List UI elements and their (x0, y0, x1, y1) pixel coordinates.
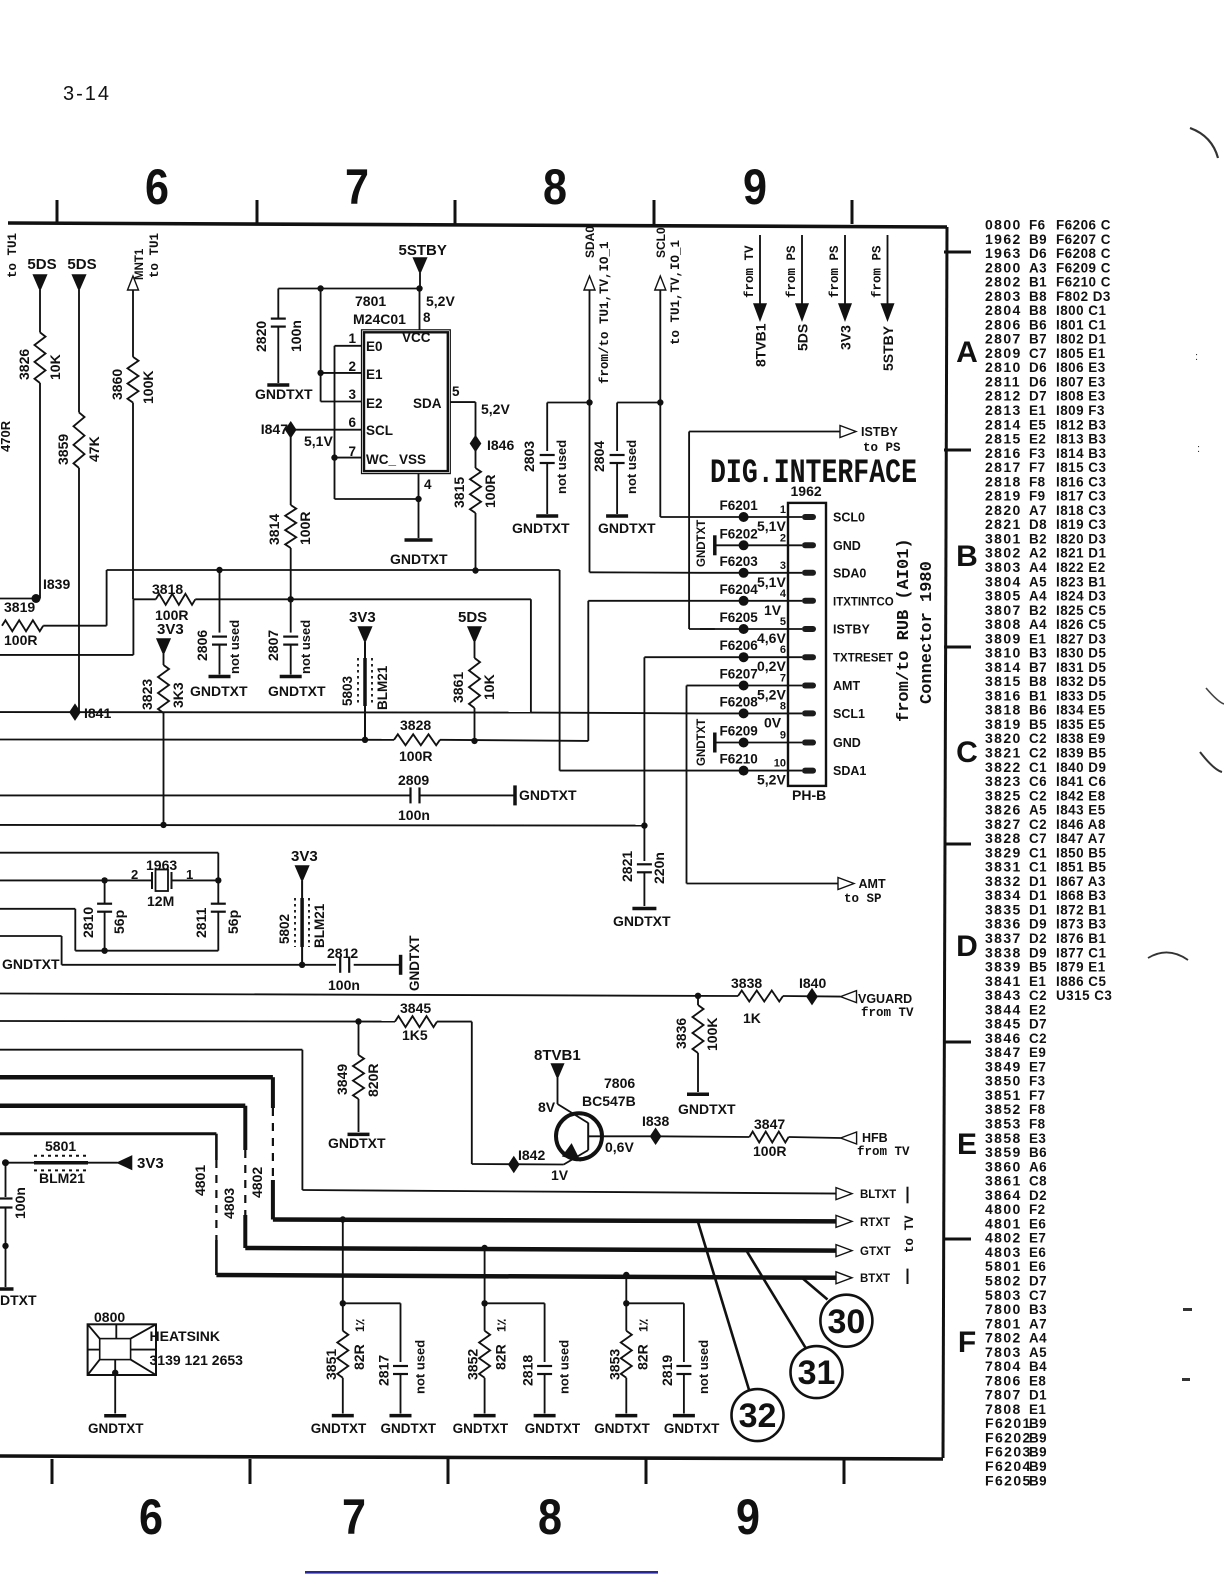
svg-text:I839 B5: I839 B5 (1056, 745, 1106, 760)
svg-text:I819 C3: I819 C3 (1056, 517, 1106, 532)
svg-text:8: 8 (780, 700, 786, 712)
svg-text:GNDTXT: GNDTXT (328, 1135, 386, 1151)
svg-text:GNDTXT: GNDTXT (311, 1421, 367, 1436)
node 100n lower (2, 1243, 8, 1249)
resistor 3847 100R (749, 1132, 788, 1143)
svg-text:C: C (956, 736, 978, 769)
capacitor 2819 not used (626, 1302, 684, 1304)
wire TXTRESET bus (0, 824, 644, 827)
svg-text:C1: C1 (1029, 760, 1047, 775)
svg-text:from TV: from TV (743, 245, 757, 298)
svg-text:Connector 1980: Connector 1980 (918, 561, 937, 704)
wire base to 3847 (656, 1135, 750, 1138)
scan artifact curves right margin (1190, 128, 1218, 158)
wire crystal bottom (75, 950, 218, 952)
svg-text:B7: B7 (1029, 660, 1047, 675)
capacitor 2821 220n (643, 826, 645, 861)
svg-text:2811: 2811 (193, 907, 209, 938)
svg-text:ITXTINTCO: ITXTINTCO (833, 596, 894, 608)
svg-text:C2: C2 (1029, 1031, 1047, 1046)
svg-text::: : (1197, 443, 1200, 455)
capacitor 2803 not used (547, 402, 589, 404)
svg-text:F9: F9 (1029, 489, 1046, 504)
svg-text:D8: D8 (1029, 517, 1047, 532)
svg-text:E1: E1 (1029, 403, 1046, 418)
svg-text:F6: F6 (1029, 218, 1046, 233)
svg-text:F6201: F6201 (720, 498, 759, 513)
ground 2803 GNDTXT (536, 514, 558, 518)
svg-text:3818: 3818 (152, 581, 183, 597)
svg-text:F3: F3 (1029, 1074, 1046, 1089)
svg-text:E6: E6 (1029, 1245, 1046, 1260)
resistor 3823 3K3 (158, 665, 169, 713)
svg-text:DTXT: DTXT (0, 1292, 37, 1308)
svg-text:E1: E1 (1029, 631, 1046, 646)
connector pin 9 GND F6209 (715, 742, 802, 744)
node 2803 tap (586, 399, 592, 405)
svg-text:I806 E3: I806 E3 (1056, 360, 1106, 375)
resistor 3836 100K (697, 996, 699, 1005)
svg-text:D2: D2 (1029, 931, 1047, 946)
wire 4802 dashed link (271, 1077, 275, 1108)
svg-text:B3: B3 (1029, 646, 1047, 661)
svg-text:0V: 0V (764, 714, 782, 730)
svg-text:F6209 C: F6209 C (1056, 260, 1111, 275)
svg-text:GNDTXT: GNDTXT (88, 1421, 144, 1436)
svg-text:F6206: F6206 (720, 638, 759, 653)
svg-text:not used: not used (696, 1340, 711, 1394)
svg-text:D7: D7 (1029, 1017, 1047, 1032)
svg-text:2: 2 (131, 867, 138, 882)
node I841 (70, 705, 80, 720)
svg-text:I872 B1: I872 B1 (1056, 902, 1106, 917)
svg-text:8TVB1: 8TVB1 (534, 1047, 581, 1064)
svg-text:I835 E5: I835 E5 (1056, 717, 1106, 732)
svg-text:3845: 3845 (400, 1000, 431, 1016)
svg-text:F8: F8 (1029, 1117, 1046, 1132)
ground 2821 GNDTXT (632, 907, 656, 911)
svg-text:SDA0: SDA0 (583, 226, 597, 258)
svg-text:GNDTXT: GNDTXT (2, 956, 60, 972)
svg-text:10K: 10K (481, 674, 497, 700)
svg-text:82R: 82R (634, 1344, 650, 1370)
callout circle 32 (732, 1389, 784, 1441)
wire RTXT feed (0, 1075, 273, 1080)
svg-text:82R: 82R (493, 1344, 509, 1370)
svg-text:B2: B2 (1029, 603, 1047, 618)
svg-text:GNDTXT: GNDTXT (190, 683, 248, 699)
svg-text:F802 D3: F802 D3 (1056, 289, 1111, 304)
wire BLTXT (302, 1190, 840, 1194)
svg-text:F6205: F6205 (985, 1472, 1032, 1488)
svg-text:B5: B5 (1029, 960, 1047, 975)
wire crystal gnd feed (0, 908, 75, 910)
svg-text:32: 32 (739, 1397, 777, 1435)
wire SCL1 riser (530, 599, 532, 712)
svg-text:E9: E9 (1029, 1045, 1046, 1060)
svg-text:to TU1: to TU1 (6, 233, 20, 278)
svg-text:GNDTXT: GNDTXT (407, 935, 422, 991)
node WC junction (331, 454, 337, 460)
svg-text:I834 E5: I834 E5 (1056, 703, 1106, 718)
wire BTXT (216, 1275, 840, 1278)
svg-text:I823 B1: I823 B1 (1056, 574, 1106, 589)
svg-text:from PS: from PS (871, 245, 885, 298)
svg-text:GNDTXT: GNDTXT (664, 1421, 720, 1436)
svg-text:3819: 3819 (4, 599, 35, 615)
svg-text:BLM21: BLM21 (375, 665, 390, 710)
svg-text:D6: D6 (1029, 360, 1047, 375)
svg-text:B3: B3 (1029, 1302, 1047, 1317)
svg-text:I825 C5: I825 C5 (1056, 603, 1106, 618)
svg-text:from PS: from PS (828, 245, 842, 298)
svg-text:6: 6 (780, 644, 786, 656)
svg-text:100R: 100R (482, 475, 498, 508)
svg-text:not used: not used (227, 620, 242, 674)
wire 3823 to bus (163, 713, 165, 825)
wire GTXT (245, 1248, 840, 1251)
svg-text:I838 E9: I838 E9 (1056, 731, 1106, 746)
svg-text:5DS: 5DS (67, 256, 96, 273)
svg-text:WC_: WC_ (366, 452, 396, 467)
ground 2807 GNDTXT (280, 675, 302, 679)
svg-text:A4: A4 (1029, 560, 1047, 575)
svg-text:C7: C7 (1029, 1288, 1047, 1303)
wire 3852 drop (484, 1248, 486, 1303)
svg-text:6: 6 (139, 1489, 163, 1545)
callout circle 30 (820, 1295, 872, 1347)
svg-text:5803: 5803 (340, 675, 355, 706)
resistor 3859 47K (74, 412, 85, 468)
svg-text:I809 F3: I809 F3 (1056, 403, 1105, 418)
wire base HFB (588, 1135, 655, 1137)
wire SDA down (475, 402, 477, 468)
svg-text:5,2V: 5,2V (426, 293, 455, 309)
wire collector (557, 1078, 559, 1104)
svg-text:5DS: 5DS (458, 609, 487, 626)
node 5803 to ITXT bus (362, 737, 368, 743)
svg-text:D: D (956, 930, 978, 963)
wire BLTXT feed (0, 1049, 302, 1051)
callout circle 31 (791, 1346, 843, 1398)
svg-text:100R: 100R (4, 632, 37, 648)
net arrow VGUARD from TV (841, 991, 857, 1003)
capacitor 2811 56p (217, 880, 219, 903)
wire crystal row (0, 879, 105, 881)
svg-text:2818: 2818 (520, 1355, 536, 1386)
svg-text:5801: 5801 (45, 1138, 76, 1154)
resistor 3828 100R (394, 734, 440, 745)
svg-text:SCL0: SCL0 (654, 227, 668, 258)
svg-text:B7: B7 (1029, 332, 1047, 347)
resistor 3845 1K5 (395, 1016, 437, 1027)
svg-text:F6202: F6202 (720, 526, 758, 541)
svg-text:D1: D1 (1029, 888, 1047, 903)
svg-text:not used: not used (624, 440, 639, 494)
svg-text:GNDTXT: GNDTXT (678, 1101, 736, 1117)
connector pin 6 TXTRESET F6206 (700, 656, 802, 658)
svg-text:C6: C6 (1029, 774, 1047, 789)
svg-text:1٪: 1٪ (636, 1318, 650, 1332)
wire 5801 node (2, 1159, 9, 1166)
svg-text:I831 D5: I831 D5 (1056, 660, 1106, 675)
svg-text:RTXT: RTXT (860, 1217, 890, 1229)
svg-text:1٪: 1٪ (495, 1318, 509, 1332)
svg-text:F7: F7 (1029, 460, 1046, 475)
svg-text:GTXT: GTXT (860, 1246, 891, 1258)
svg-text:A4: A4 (1029, 589, 1047, 604)
svg-text:I826 C5: I826 C5 (1056, 617, 1106, 632)
svg-text:A5: A5 (1029, 574, 1047, 589)
wire VGUARD bus (0, 994, 738, 997)
svg-text:2806: 2806 (194, 630, 210, 661)
node I839 (32, 594, 41, 603)
wire SDA0 row3 (590, 571, 701, 574)
svg-text:F6207 C: F6207 C (1056, 232, 1111, 247)
resistor 3851 82R 1% (342, 1303, 344, 1331)
svg-text:7: 7 (345, 159, 369, 215)
wire heatsink gnd (114, 1375, 116, 1414)
wire SDA1 feed down (559, 570, 561, 771)
svg-text:D1: D1 (1029, 874, 1047, 889)
border frame right (943, 227, 947, 1458)
wire AMT out (686, 686, 688, 884)
svg-text:TXTRESET: TXTRESET (833, 653, 893, 665)
svg-text:SCL0: SCL0 (833, 511, 865, 525)
svg-text:F: F (958, 1326, 976, 1359)
svg-text:I832 D5: I832 D5 (1056, 674, 1106, 689)
svg-text:C2: C2 (1029, 817, 1047, 832)
node 3852 tap (481, 1245, 487, 1251)
svg-text:B8: B8 (1029, 289, 1047, 304)
svg-text:E6: E6 (1029, 1216, 1046, 1231)
svg-text:2817: 2817 (376, 1355, 392, 1386)
svg-text:I847: I847 (261, 421, 288, 437)
wire 3861 to bus (474, 708, 476, 741)
svg-text:3826: 3826 (16, 349, 32, 380)
pin 2 E1 wire (321, 372, 362, 374)
wire 3815 to SDA bus (475, 513, 477, 571)
svg-text:A6: A6 (1029, 1159, 1047, 1174)
svg-text:I808 E3: I808 E3 (1056, 389, 1106, 404)
svg-text:100n: 100n (288, 320, 304, 352)
svg-text:I801 C1: I801 C1 (1056, 317, 1106, 332)
wire BTXT feed (0, 1132, 216, 1135)
svg-text:3836: 3836 (673, 1018, 689, 1049)
svg-text:4803: 4803 (221, 1188, 237, 1219)
svg-text:I879 E1: I879 E1 (1056, 960, 1106, 975)
svg-text:B4: B4 (1029, 1359, 1047, 1374)
svg-text:I842 E8: I842 E8 (1056, 788, 1106, 803)
svg-text:GNDTXT: GNDTXT (381, 1421, 437, 1436)
svg-text:I876 B1: I876 B1 (1056, 931, 1106, 946)
svg-text:not used: not used (413, 1340, 428, 1394)
net arrow 5STBY from PS (887, 235, 889, 305)
svg-text:D7: D7 (1029, 389, 1047, 404)
svg-text:not used: not used (554, 440, 569, 494)
svg-text:100R: 100R (297, 512, 313, 545)
svg-text:3860: 3860 (109, 369, 125, 400)
svg-text:3851: 3851 (323, 1349, 339, 1380)
wire ISTBY vertical (688, 432, 690, 630)
resistor 3819 100R (2, 620, 43, 631)
svg-text:F8: F8 (1029, 1102, 1046, 1117)
svg-text:PH-B: PH-B (792, 787, 826, 803)
svg-text:D6: D6 (1029, 374, 1047, 389)
svg-text:I873 B3: I873 B3 (1056, 917, 1106, 932)
svg-text:1K: 1K (743, 1010, 761, 1026)
wire TXTRESET riser (643, 657, 645, 825)
resistor 3852 82R 1% (484, 1303, 486, 1331)
label to TV bracket (907, 1187, 909, 1204)
svg-text:GNDTXT: GNDTXT (255, 386, 313, 402)
wire 3845 bus (0, 1020, 395, 1023)
net arrow 8TVB1 from TV (759, 235, 761, 305)
svg-text:GNDTXT: GNDTXT (594, 1421, 650, 1436)
svg-text:I802 D1: I802 D1 (1056, 332, 1106, 347)
pin 4 VSS (418, 474, 420, 499)
wire 3819 to SDA bus riser (43, 625, 106, 627)
svg-text:8V: 8V (538, 1099, 556, 1115)
svg-text:I867 A3: I867 A3 (1056, 874, 1106, 889)
resistor 3838 1K (738, 991, 783, 1002)
svg-text:B9: B9 (1029, 1459, 1047, 1474)
svg-text:B5: B5 (1029, 717, 1047, 732)
svg-text:C1: C1 (1029, 860, 1047, 875)
svg-text:to TU1: to TU1 (148, 233, 162, 278)
wire ISTBY out (689, 431, 840, 433)
node TXTRESET/2821 junction (641, 822, 647, 828)
node heatsink ground (112, 1370, 118, 1376)
wire 2809 bus (0, 794, 410, 796)
svg-text:to TU1,TV,IO_1: to TU1,TV,IO_1 (669, 240, 683, 345)
svg-text:B6: B6 (1029, 317, 1047, 332)
svg-text:8TVB1: 8TVB1 (753, 323, 769, 367)
svg-text:9: 9 (736, 1489, 760, 1545)
resistor 3814 100R (290, 430, 292, 505)
connector pin 3 SDA0 F6203 (700, 572, 802, 574)
wire 3853 drop (625, 1275, 627, 1303)
svg-text:E7: E7 (1029, 1231, 1046, 1246)
resistor 3818 100R (156, 594, 196, 605)
wire I839 net (0, 598, 36, 600)
svg-text:E7: E7 (1029, 1059, 1046, 1074)
node 3853 tap (623, 1272, 629, 1278)
svg-text:I820 D3: I820 D3 (1056, 531, 1106, 546)
net arrow 5DS from PS (801, 235, 803, 305)
pin 3 E2 wire (321, 401, 362, 403)
capacitor 2809 100n (409, 787, 411, 803)
svg-text:I847 A7: I847 A7 (1056, 831, 1106, 846)
svg-text:I841 C6: I841 C6 (1056, 774, 1106, 789)
svg-text:100n: 100n (328, 977, 360, 993)
svg-text:from TV: from TV (857, 1145, 910, 1159)
svg-text:9: 9 (743, 159, 767, 215)
svg-text:GNDTXT: GNDTXT (453, 1421, 509, 1436)
svg-text:F6206 C: F6206 C (1056, 218, 1111, 233)
border frame top (8, 223, 947, 227)
svg-text:I850 B5: I850 B5 (1056, 845, 1106, 860)
svg-text:3K3: 3K3 (170, 682, 186, 708)
svg-text:SDA1: SDA1 (833, 764, 866, 778)
wire callout 30 (802, 1278, 828, 1300)
svg-text:to TV: to TV (903, 1215, 917, 1253)
ground 2806 GNDTXT (209, 675, 231, 679)
svg-text:3849: 3849 (334, 1064, 350, 1095)
svg-text:E5: E5 (1029, 417, 1046, 432)
svg-text:5,2V: 5,2V (481, 401, 510, 417)
svg-text:I807 E3: I807 E3 (1056, 374, 1106, 389)
svg-text:3V3: 3V3 (349, 609, 376, 626)
wire VSS to ground (418, 499, 420, 538)
svg-text:I840: I840 (799, 975, 826, 991)
svg-text:VGUARD: VGUARD (858, 992, 912, 1006)
svg-text:5: 5 (780, 616, 786, 628)
ground 2820 GNDTXT (267, 383, 289, 387)
svg-text:E8: E8 (1029, 1373, 1046, 1388)
svg-text:2809: 2809 (398, 772, 429, 788)
svg-text:I816 C3: I816 C3 (1056, 474, 1106, 489)
svg-text:B: B (956, 540, 978, 573)
svg-text:U315 C3: U315 C3 (1056, 988, 1112, 1003)
svg-text:F6207: F6207 (720, 667, 758, 682)
svg-text:D7: D7 (1029, 1273, 1047, 1288)
wire SDA bus (5,1V) (107, 569, 560, 571)
svg-text:F6210 C: F6210 C (1056, 275, 1111, 290)
connector pin 4 ITXTINTCO F6204 (700, 600, 802, 602)
svg-text:F3: F3 (1029, 446, 1046, 461)
svg-text:B8: B8 (1029, 674, 1047, 689)
svg-text:5,1V: 5,1V (304, 433, 333, 449)
svg-text:AMT: AMT (833, 679, 860, 693)
svg-text:3852: 3852 (465, 1349, 481, 1380)
svg-text:D2: D2 (1029, 1188, 1047, 1203)
svg-text:3: 3 (780, 560, 786, 572)
svg-text:1: 1 (348, 331, 356, 346)
svg-text:82R: 82R (351, 1344, 367, 1370)
svg-text:GNDTXT: GNDTXT (512, 520, 570, 536)
svg-text:A4: A4 (1029, 617, 1047, 632)
svg-text:I846: I846 (487, 437, 514, 453)
svg-text:5,2V: 5,2V (757, 772, 786, 788)
net arrow 3V3 left (118, 1156, 132, 1169)
ground 3836 GNDTXT (687, 1093, 709, 1097)
wire ITXTINTCO bus (0, 739, 394, 741)
svg-text:not used: not used (557, 1340, 572, 1394)
svg-text:3V3: 3V3 (291, 848, 318, 865)
svg-text:GNDTXT: GNDTXT (268, 683, 326, 699)
svg-text:from/to TU1,TV,IO_1: from/to TU1,TV,IO_1 (598, 241, 612, 384)
svg-text:I818 C3: I818 C3 (1056, 503, 1106, 518)
svg-text:C7: C7 (1029, 346, 1047, 361)
wire 3814 to SCL bus (290, 548, 292, 599)
svg-text:GND: GND (833, 539, 861, 553)
svg-text:D1: D1 (1029, 902, 1047, 917)
svg-text:7: 7 (342, 1489, 366, 1545)
svg-text:A5: A5 (1029, 803, 1047, 818)
wire 3836 to ground (697, 1053, 699, 1092)
svg-text:C8: C8 (1029, 1174, 1047, 1189)
wire callout 31 (746, 1251, 806, 1349)
svg-text:D6: D6 (1029, 246, 1047, 261)
connector pin 5 ISTBY F6205 (700, 628, 802, 630)
svg-text:2810: 2810 (80, 907, 96, 938)
svg-text:SCL1: SCL1 (833, 707, 865, 721)
wire 4803 dashed link (243, 1106, 247, 1150)
wire SCL0 row1 (659, 516, 661, 519)
svg-text:SDA0: SDA0 (833, 566, 866, 580)
capacitor 2807 not used (290, 599, 292, 632)
